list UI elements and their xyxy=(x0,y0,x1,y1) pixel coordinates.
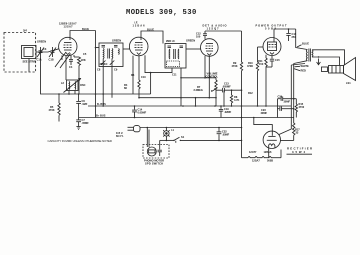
speaker frame xyxy=(329,66,344,74)
V1 internal electrodes xyxy=(64,37,72,54)
resistor R2 xyxy=(74,55,81,94)
svg-text:C3: C3 xyxy=(43,47,47,51)
wire drop pot to bus xyxy=(215,98,217,106)
IFT1 tertiary marks xyxy=(118,49,121,55)
svg-text:RED: RED xyxy=(301,69,307,73)
AVC dots xyxy=(180,97,182,99)
resistor R5 xyxy=(58,93,60,121)
IFT1 secondary coil xyxy=(111,49,114,59)
line capacitor C22 xyxy=(217,128,222,141)
wire B- riser xyxy=(95,31,97,118)
svg-text:30MF: 30MF xyxy=(284,100,291,104)
secondary top lead xyxy=(312,50,345,65)
svg-text:GREEN: GREEN xyxy=(37,40,46,44)
V3 plate wire top xyxy=(205,30,242,32)
V5 internal electrodes xyxy=(267,131,277,148)
V2 pin down 1 xyxy=(132,56,134,94)
output transformer T1 xyxy=(306,49,313,62)
osc coil bottom lead 2 xyxy=(74,91,76,95)
leader blue xyxy=(297,45,302,47)
svg-text:50B5: 50B5 xyxy=(267,159,274,163)
svg-text:12BA6: 12BA6 xyxy=(133,24,146,28)
IFT1 core xyxy=(107,49,109,59)
IFT2 to V3 grid xyxy=(186,48,201,50)
V4 internal electrodes xyxy=(268,38,277,55)
filter capacitor C24 xyxy=(278,97,295,101)
svg-text:12SQ7: 12SQ7 xyxy=(207,27,220,31)
gang link diagonal xyxy=(55,52,66,67)
IFT1 trimmer caps top xyxy=(102,46,118,47)
resistor R10 riser xyxy=(256,47,258,106)
svg-text:CAPACITY IN MMF UNLESS OTHERWI: CAPACITY IN MMF UNLESS OTHERWISE NOTED xyxy=(48,139,113,143)
svg-text:C10: C10 xyxy=(141,75,146,79)
svg-text:BLUE: BLUE xyxy=(147,28,154,32)
V4 grid lead xyxy=(258,46,264,48)
wire loop to grid xyxy=(36,49,59,52)
tuning capacitor C1B xyxy=(49,47,56,57)
antenna dashed enclosure xyxy=(4,33,36,73)
svg-text:R6: R6 xyxy=(131,73,135,77)
V1 plate wire to IFT1 xyxy=(70,31,96,38)
IFT1 bottom lead 2 xyxy=(111,67,113,98)
IFT1 trimmer arrows xyxy=(101,59,114,67)
rectifier underline xyxy=(287,153,313,155)
svg-text:2.2MEG: 2.2MEG xyxy=(194,88,203,92)
IFT1 to V2 grid xyxy=(123,48,130,50)
svg-text:.05MF: .05MF xyxy=(222,133,230,137)
V5 cathode jog from B+ bus xyxy=(254,118,272,132)
leader red xyxy=(294,69,301,71)
svg-text:12SA7: 12SA7 xyxy=(252,159,260,163)
capacitor C19 xyxy=(219,105,223,117)
IFT2 secondary coil xyxy=(177,49,180,59)
loop antenna L1 inner xyxy=(24,48,33,57)
AVC wire xyxy=(181,77,216,79)
resistor R8 xyxy=(230,89,232,106)
svg-text:3/4': 3/4' xyxy=(23,29,28,33)
loop return wire xyxy=(28,59,30,72)
svg-text:C4: C4 xyxy=(69,65,73,69)
svg-text:MODELS 309, 530: MODELS 309, 530 xyxy=(126,9,197,17)
phono dashed box xyxy=(143,145,169,159)
IFT1 primary coil xyxy=(102,49,105,59)
B+ rail 2 xyxy=(293,64,295,124)
rail1 top lead xyxy=(291,64,305,66)
capacitor C16 xyxy=(286,28,290,41)
heater string xyxy=(242,150,282,158)
AVC bus line xyxy=(139,97,216,99)
V4 bypass capacitor C15 xyxy=(266,56,274,68)
svg-text:12AT7: 12AT7 xyxy=(249,150,257,154)
svg-text:4700: 4700 xyxy=(299,105,305,109)
svg-text:BLUE: BLUE xyxy=(302,42,309,46)
phono motor M xyxy=(147,147,156,156)
B+ bus xyxy=(79,117,294,119)
V2 pin jog xyxy=(145,55,172,72)
wire drop 195.5 xyxy=(195,98,197,106)
svg-text:SEE STRIP: SEE STRIP xyxy=(23,59,37,63)
svg-text:4.7K: 4.7K xyxy=(234,98,240,102)
wire drop 224 xyxy=(223,90,225,106)
svg-text:R12: R12 xyxy=(248,91,253,95)
capacitor C14 xyxy=(132,105,137,118)
svg-text:100: 100 xyxy=(196,35,201,39)
osc coil bottom leads xyxy=(68,91,70,95)
IFT1 feed stub xyxy=(96,47,100,49)
svg-text:.1MF: .1MF xyxy=(82,102,88,106)
V2 cathode resistor R6 xyxy=(138,56,140,98)
V2 internal electrodes xyxy=(135,37,143,54)
svg-text:WHITE: WHITE xyxy=(301,64,310,68)
svg-text:C24: C24 xyxy=(278,95,283,99)
speaker cone xyxy=(344,58,356,81)
switch S1 xyxy=(173,137,241,143)
filter capacitor C23 xyxy=(278,107,295,111)
svg-text:C5: C5 xyxy=(83,52,87,56)
V3 pin 2 xyxy=(208,56,210,97)
IFT1 bottom lead 1 xyxy=(102,67,104,107)
AC line 1 xyxy=(140,127,242,129)
resistor R17 xyxy=(280,123,295,141)
junction dots line0 xyxy=(78,93,80,95)
IF transformer IFT1 xyxy=(99,43,123,67)
svg-text:C1A: C1A xyxy=(37,58,42,62)
loop antenna L1 outer xyxy=(22,46,37,59)
svg-text:C9: C9 xyxy=(114,68,118,72)
IFT2 primary coil xyxy=(168,49,171,59)
B- bus dots xyxy=(102,105,104,107)
svg-text:C15: C15 xyxy=(275,58,280,62)
B- bus xyxy=(88,105,291,107)
svg-text:S1: S1 xyxy=(181,135,185,139)
chassis ground arrow xyxy=(317,56,321,65)
svg-text:GREEN: GREEN xyxy=(112,39,121,43)
svg-text:SPD SWITCH: SPD SWITCH xyxy=(145,161,163,165)
heater pins xyxy=(268,148,270,158)
tuning capacitor C1A xyxy=(37,47,44,57)
resistor R15 xyxy=(294,99,298,118)
svg-text:I-1: I-1 xyxy=(171,128,175,132)
svg-text:470K: 470K xyxy=(49,108,55,112)
volume control R7 xyxy=(212,78,218,98)
svg-text:LS1: LS1 xyxy=(346,81,351,85)
AC junctions xyxy=(218,127,220,129)
oscillator coil L2 xyxy=(64,79,81,93)
svg-text:B+ BUS: B+ BUS xyxy=(96,114,106,118)
jog riser to line0 xyxy=(150,73,152,94)
capacitor C6 xyxy=(76,94,81,118)
svg-text:CONTROL: CONTROL xyxy=(206,74,219,78)
secondary bottom lead xyxy=(312,57,340,66)
rectifier tube V5 xyxy=(263,131,280,148)
svg-text:40MF: 40MF xyxy=(261,111,268,115)
primary top lead xyxy=(296,29,308,50)
IF amp tube V2 xyxy=(129,37,148,56)
V1 pin to osc coil xyxy=(65,56,67,80)
svg-text:470K: 470K xyxy=(247,64,253,68)
svg-text:12BA6: 12BA6 xyxy=(264,150,273,154)
V3 pins down xyxy=(204,56,206,78)
V4 cathode resistor R11 xyxy=(265,55,267,107)
IFT2 core xyxy=(173,49,175,59)
svg-text:BLUE: BLUE xyxy=(82,27,89,31)
wiper wire xyxy=(211,90,213,91)
junction dot C13 xyxy=(241,89,243,91)
jog junction xyxy=(150,72,152,74)
IFT2 trimmer caps top xyxy=(168,46,184,47)
svg-text:C11: C11 xyxy=(172,73,177,77)
svg-text:GREEN: GREEN xyxy=(186,39,195,43)
svg-text:C1B: C1B xyxy=(49,58,54,62)
capacitor C7 xyxy=(76,118,81,127)
svg-text:470K: 470K xyxy=(232,64,238,68)
svg-text:35W4: 35W4 xyxy=(292,150,305,154)
svg-text:455KC: 455KC xyxy=(100,62,108,66)
svg-text:0.05MF: 0.05MF xyxy=(138,111,147,115)
B+ rail 1 xyxy=(290,65,292,129)
power output tube V4 xyxy=(263,38,281,56)
V1 cathode pin xyxy=(61,55,63,60)
coupling capacitor C13 xyxy=(216,88,242,92)
gang link diagonal 2 xyxy=(60,54,71,69)
switch line xyxy=(160,139,174,141)
wire line0 horizontal xyxy=(41,57,151,94)
capacitor C4 xyxy=(69,56,73,66)
svg-text:.02MF: .02MF xyxy=(224,110,232,114)
svg-text:150: 150 xyxy=(259,62,264,66)
leader white xyxy=(295,65,301,68)
grid capacitor C12 xyxy=(203,31,207,39)
IFT2 bottom lead xyxy=(180,68,182,106)
svg-text:B- BUS: B- BUS xyxy=(97,102,106,106)
svg-text:L2: L2 xyxy=(61,81,65,85)
svg-text:C8: C8 xyxy=(97,68,101,72)
pilot lamp branch xyxy=(163,128,169,142)
converter tube V1 xyxy=(59,37,77,55)
svg-text:22K: 22K xyxy=(81,58,86,62)
primary bottom lead xyxy=(294,61,308,64)
V4 plate wire xyxy=(274,29,296,38)
rail1 to rectifier xyxy=(279,129,291,135)
IF transformer IFT2 xyxy=(165,44,186,69)
svg-text:.05MF: .05MF xyxy=(82,121,90,125)
svg-text:60 CY.: 60 CY. xyxy=(116,134,124,138)
det audio tube V3 xyxy=(201,39,219,57)
svg-text:2ND I.F.: 2ND I.F. xyxy=(166,39,175,43)
svg-text:.005MF: .005MF xyxy=(222,85,231,89)
speaker voice coil xyxy=(322,67,328,72)
ground symbol xyxy=(76,127,80,130)
V2 plate wire to IFT2 xyxy=(141,31,163,44)
filter neg riser xyxy=(277,99,279,118)
IFT2 diode section dashed xyxy=(167,61,180,67)
svg-text:OSC: OSC xyxy=(80,83,86,87)
coupling riser R9 xyxy=(240,31,242,158)
V3 internal electrodes xyxy=(206,44,214,56)
motor core xyxy=(149,150,155,153)
cord pair xyxy=(146,128,148,148)
svg-text:12SA7: 12SA7 xyxy=(64,25,74,29)
AC plug xyxy=(128,126,141,132)
motor capacitor xyxy=(158,140,162,156)
